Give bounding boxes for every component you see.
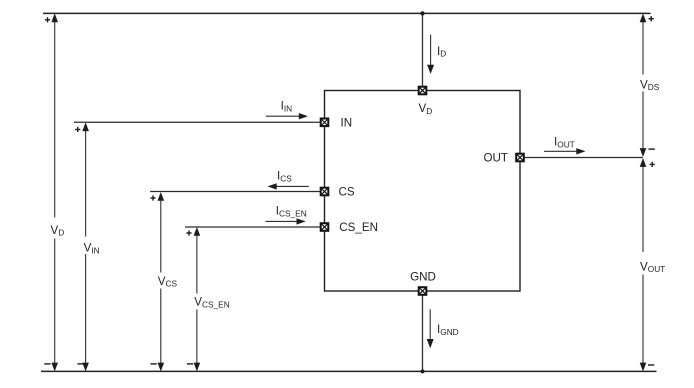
- pin CS: [321, 188, 329, 196]
- node junction on ground rail: [421, 369, 425, 373]
- svg-text:CS_EN: CS_EN: [339, 221, 378, 234]
- svg-text:IN: IN: [341, 116, 353, 129]
- voltage measure VCS_EN: [194, 227, 230, 371]
- voltage measure VOUT: [640, 158, 666, 371]
- svg-text:OUT: OUT: [484, 151, 508, 164]
- top supply rail wire: [43, 12, 651, 14]
- bottom ground rail wire: [41, 370, 657, 372]
- svg-text:GND: GND: [410, 270, 436, 283]
- plus sign VD top: [45, 17, 50, 22]
- pin IN: [321, 119, 329, 127]
- voltage measure VCS: [158, 192, 178, 371]
- plus sign VCS top: [150, 195, 155, 200]
- plus sign VCS_EN top: [186, 230, 191, 235]
- wire VD feed from top rail: [422, 13, 424, 86]
- wire GND to ground rail: [422, 296, 424, 372]
- pin VD: [419, 87, 427, 95]
- current arrow ID: [427, 35, 446, 74]
- current arrow ICS_EN: [266, 205, 307, 225]
- minus sign VOUT bottom: [648, 364, 654, 365]
- voltage measure VIN: [82, 122, 99, 371]
- voltage measure VD: [51, 13, 65, 371]
- current arrow IGND: [427, 309, 459, 348]
- minus sign VCS bottom: [151, 363, 157, 364]
- pin GND: [419, 287, 427, 295]
- wire CS_EN: [185, 226, 320, 228]
- wire IN: [74, 121, 320, 123]
- minus sign VCS_EN bottom: [187, 363, 193, 364]
- minus sign VDS bottom: [649, 148, 655, 149]
- plus sign VDS top: [649, 16, 654, 21]
- minus sign VIN bottom: [78, 363, 84, 364]
- minus sign VD bottom: [44, 363, 50, 364]
- current arrow IOUT: [544, 136, 586, 155]
- plus sign VOUT top: [650, 162, 655, 167]
- svg-text:CS: CS: [339, 185, 355, 198]
- node junction on top rail: [420, 11, 424, 15]
- current arrow IIN: [266, 100, 308, 120]
- pin CS_EN: [321, 223, 329, 231]
- wire CS: [150, 191, 320, 193]
- DUT body U1: [325, 91, 521, 292]
- current arrow ICS: [268, 170, 309, 190]
- voltage measure VDS: [640, 13, 660, 157]
- pin OUT: [516, 154, 524, 162]
- wire OUT: [525, 157, 644, 159]
- plus sign VIN top: [75, 127, 80, 132]
